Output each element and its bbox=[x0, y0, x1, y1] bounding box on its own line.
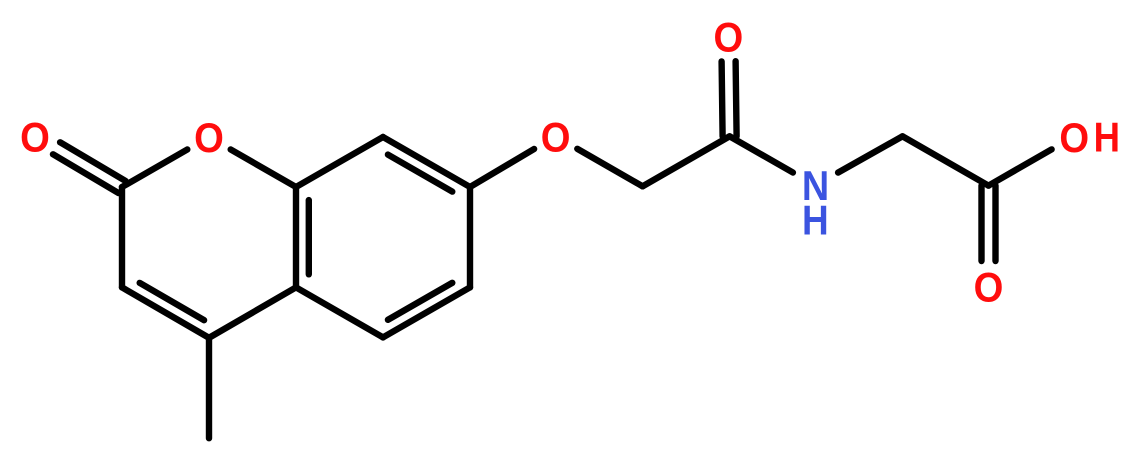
bond C-OH (acid hydroxyl) bbox=[989, 149, 1052, 185]
double bond C6=C5 (benzene) bbox=[383, 283, 470, 338]
svg-text:O: O bbox=[1059, 115, 1089, 162]
svg-text:O: O bbox=[20, 114, 50, 161]
svg-text:H: H bbox=[1094, 114, 1120, 161]
bond O-CH2 (ether to methylene) bbox=[577, 149, 642, 187]
double bond C=O (acid carbonyl) bbox=[982, 186, 996, 261]
bond C4-CH3 (4-methyl group) bbox=[206, 338, 212, 438]
bond C2-C3 bbox=[119, 187, 125, 287]
svg-text:O: O bbox=[974, 264, 1004, 311]
bond N-CH2 (glycine methylene) bbox=[838, 136, 902, 172]
bond O1ring-C8a bbox=[231, 150, 296, 188]
bond C7-O (aryl ether) bbox=[470, 149, 534, 187]
svg-text:O: O bbox=[194, 114, 224, 161]
double bond C2=O (lactone carbonyl) bbox=[53, 142, 126, 193]
double bond C3=C4 (pyranone) bbox=[122, 283, 209, 338]
svg-text:O: O bbox=[713, 14, 743, 61]
double bond C4a=C8a (ring fusion) bbox=[296, 187, 309, 287]
svg-text:H: H bbox=[802, 197, 829, 244]
bond C(amide)-N bbox=[730, 136, 793, 172]
bond CH2-COOH bbox=[903, 136, 989, 185]
bond C4-C4a bbox=[209, 287, 296, 337]
bond CH2-C(amide) bbox=[643, 136, 730, 186]
double bond C=O (amide carbonyl) bbox=[722, 61, 737, 136]
svg-text:O: O bbox=[541, 114, 571, 161]
double bond C8=C7 (benzene) bbox=[383, 137, 470, 192]
bond C8a-C8 bbox=[296, 137, 383, 187]
bond C7-C6 bbox=[467, 187, 473, 287]
bond C4a-C5 bbox=[296, 287, 383, 337]
bond C2-O1ring (lactone C to ring O) bbox=[122, 150, 187, 188]
